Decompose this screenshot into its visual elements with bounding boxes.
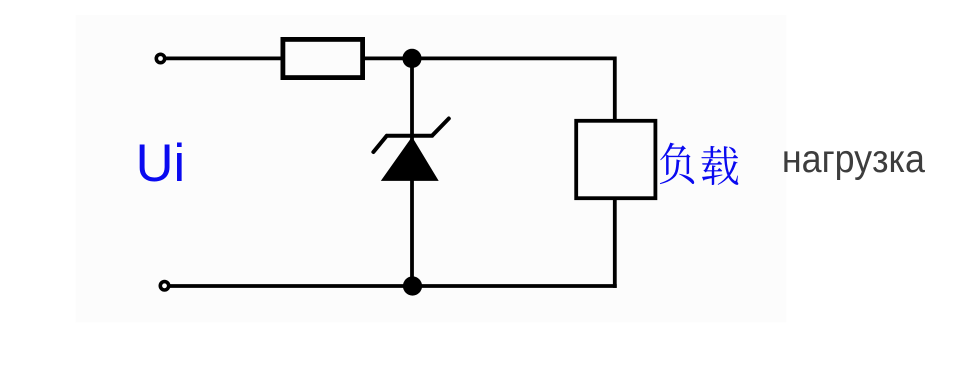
load box (negative load) — [576, 121, 655, 198]
zener diode D: anode triangle — [382, 138, 438, 181]
node: top junction dot — [402, 49, 421, 68]
input terminal: top — [156, 54, 164, 62]
wire: zener branch vertical — [410, 58, 414, 286]
svg-text:нагрузка: нагрузка — [782, 138, 925, 181]
label 负 (load, Chinese) — [660, 143, 694, 185]
wire: resistor to top node and on to load corner — [365, 57, 615, 61]
wire: load box bottom to bottom rail — [613, 198, 617, 288]
resistor R (series resistor) — [283, 39, 363, 77]
input terminal: bottom — [160, 282, 168, 290]
wire: top left from input terminal to resistor — [166, 57, 281, 61]
wire: top right corner down to load box — [613, 57, 617, 121]
node: bottom junction dot — [403, 276, 422, 295]
drawing canvas tint — [76, 15, 787, 323]
zener diode D: cathode bar with bent ends — [373, 119, 448, 153]
wire: bottom rail — [170, 284, 617, 288]
svg-text:Ui: Ui — [136, 134, 186, 193]
label 载 (load, Chinese) — [701, 146, 738, 185]
